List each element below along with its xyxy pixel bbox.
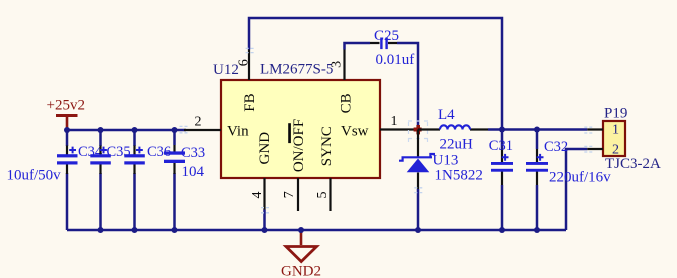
svg-text:Vin: Vin <box>227 124 249 140</box>
svg-text:GND2: GND2 <box>281 264 321 278</box>
svg-text:1: 1 <box>391 114 398 129</box>
pin 7 ON/OFF lead <box>282 178 298 211</box>
svg-text:C34: C34 <box>78 144 103 160</box>
wire: ground rail bottom <box>67 229 566 232</box>
svg-text:LM2677S-5: LM2677S-5 <box>260 62 333 78</box>
junction dots top wire <box>64 127 178 133</box>
capacitor C36 <box>124 144 171 174</box>
svg-text:1N5822: 1N5822 <box>435 168 483 184</box>
svg-text:TJC3-2A: TJC3-2A <box>605 156 661 172</box>
svg-text:FB: FB <box>242 93 258 111</box>
svg-text:C32: C32 <box>544 139 568 155</box>
pin 3 CB lead <box>330 50 345 81</box>
svg-text:U13: U13 <box>433 153 459 169</box>
pin 5 SYNC lead <box>315 178 331 211</box>
pin 1 Vsw lead <box>380 114 418 130</box>
capacitor C35 <box>90 144 130 174</box>
wire: C25 right down to Vsw node <box>397 43 418 130</box>
wire: C34 branch vertical <box>66 130 69 230</box>
svg-text:22uH: 22uH <box>440 137 474 153</box>
svg-text:3: 3 <box>330 61 345 68</box>
svg-text:104: 104 <box>182 164 205 180</box>
pin 6 FB lead <box>237 50 252 81</box>
capacitor C32 <box>526 139 611 186</box>
svg-text:10uf/50v: 10uf/50v <box>7 168 62 184</box>
capacitor C31 <box>489 138 513 185</box>
power symbol +25v2 <box>47 98 85 131</box>
pin 4 GND lead <box>250 178 265 210</box>
pin label ON/OFF with overbar <box>288 119 307 172</box>
junction dots ground rail <box>98 227 541 233</box>
wire: diode bottom to rail <box>417 189 420 230</box>
wire: top-left net from +25v2 node to Vin pin <box>67 129 186 132</box>
svg-text:4: 4 <box>250 192 265 199</box>
schottky diode U13 <box>399 130 483 190</box>
junction dots output run <box>499 127 540 133</box>
capacitor C33 <box>164 145 205 180</box>
wire: P19 pin2 to ground rail <box>566 149 587 230</box>
svg-text:C25: C25 <box>374 28 399 44</box>
capacitor C25 <box>370 28 414 68</box>
wire: C31 branch vertical <box>501 130 504 231</box>
selection dash marks at lead hot-ends <box>180 48 593 212</box>
svg-text:2: 2 <box>195 115 202 130</box>
svg-text:SYNC: SYNC <box>319 126 335 166</box>
svg-text:6: 6 <box>237 59 252 66</box>
wire: CB pin3 to C25 left <box>345 43 371 50</box>
svg-text:C33: C33 <box>181 145 205 161</box>
svg-text:C31: C31 <box>489 138 513 154</box>
IC U12 body <box>221 80 380 178</box>
svg-text:C35: C35 <box>107 144 131 160</box>
wire: pin4 to ground rail <box>263 210 266 231</box>
svg-text:1: 1 <box>612 123 619 138</box>
capacitor C34 <box>57 144 103 174</box>
ground symbol GND2 <box>281 230 321 278</box>
wire: C33 branch vertical <box>173 130 176 230</box>
svg-text:220uf/16v: 220uf/16v <box>549 170 611 186</box>
svg-text:ON/OFF: ON/OFF <box>291 119 307 172</box>
svg-text:CB: CB <box>338 93 354 113</box>
svg-text:U12: U12 <box>213 62 239 78</box>
svg-text:GND: GND <box>257 132 273 165</box>
svg-text:0.01uf: 0.01uf <box>376 52 415 68</box>
svg-text:L4: L4 <box>438 107 455 123</box>
svg-text:P19: P19 <box>604 106 627 122</box>
pin 2 Vin lead <box>184 115 221 131</box>
wire: feedback net FB pin6 to output node <box>249 18 502 130</box>
svg-text:+25v2: +25v2 <box>47 98 85 114</box>
inductor L4 <box>418 107 488 153</box>
wire: C32 branch vertical <box>536 130 539 231</box>
connector P19 <box>587 106 661 173</box>
wire: C36 branch vertical <box>133 130 136 230</box>
svg-text:5: 5 <box>315 192 330 199</box>
svg-text:7: 7 <box>282 191 297 198</box>
wire: Vsw output run to P19 pin1 <box>488 128 587 131</box>
wire: C35 branch vertical <box>99 130 102 230</box>
svg-text:Vsw: Vsw <box>341 124 369 140</box>
junction red cross at Vsw node <box>408 121 428 142</box>
